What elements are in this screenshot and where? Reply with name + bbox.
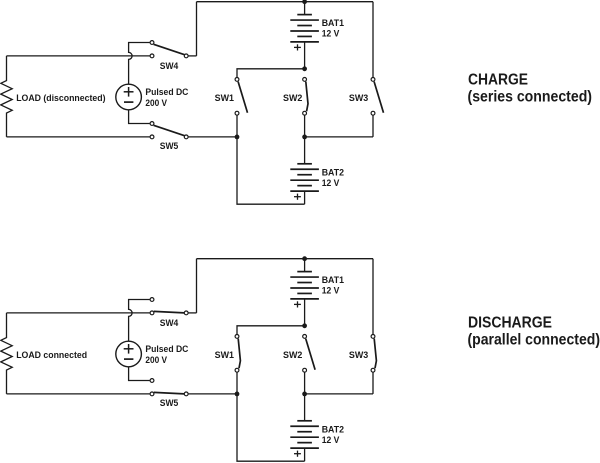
switch SW3 top contact (top) xyxy=(371,78,375,82)
switch SW2 bottom contact (top) xyxy=(303,111,307,115)
junction dot below BAT1 (top) xyxy=(302,66,307,71)
svg-text:12 V: 12 V xyxy=(322,29,340,39)
battery BAT1' (bottom) xyxy=(290,272,319,308)
wire load bottom (top) xyxy=(7,136,150,138)
label SW1 (top) xyxy=(215,93,234,103)
resistor LOAD (top) xyxy=(1,56,12,137)
switch SW1 bottom contact (top) xyxy=(235,111,239,115)
wire junction to SW1 (top) xyxy=(237,69,305,78)
wire BAT1' top lead (bottom) xyxy=(304,259,306,272)
switch SW2 blade closed (top) xyxy=(306,82,308,112)
svg-text:(series connected): (series connected) xyxy=(468,88,593,105)
svg-text:200 V: 200 V xyxy=(145,98,167,108)
switch SW5 blade upper-left to right (top) xyxy=(154,125,185,135)
label SW5' (bottom) xyxy=(160,398,179,408)
switch SW5' right contact (bottom) xyxy=(184,392,188,396)
wire source top lead with crossover hump (bottom) xyxy=(129,300,150,342)
junction dot node top rail / BAT1' (bottom) xyxy=(302,256,307,261)
wire right mid segment SW2 to SW3 (top) xyxy=(305,136,373,138)
label Pulsed DC 200 V (bottom) xyxy=(145,344,189,365)
wire SW3' bottom lead (bottom) xyxy=(372,372,374,394)
switch SW4 blade upper-left to right (top) xyxy=(154,44,185,54)
wire left rail vertical (bottom) xyxy=(196,259,198,313)
svg-text:BAT1: BAT1 xyxy=(322,18,344,28)
svg-text:200 V: 200 V xyxy=(145,355,167,365)
junction dot SW2 bottom node (top) xyxy=(302,135,307,140)
switch SW3' bottom contact (bottom) xyxy=(371,368,375,372)
wire top rail (top) xyxy=(197,1,374,3)
label DISCHARGE heading xyxy=(468,314,552,331)
switch SW1' top contact (bottom) xyxy=(235,335,239,339)
label SW1' (bottom) xyxy=(215,350,234,360)
svg-text:CHARGE: CHARGE xyxy=(468,71,528,88)
resistor LOAD' (bottom) xyxy=(1,313,12,394)
wire load top (top) xyxy=(7,55,150,57)
wire BAT2' bottom lead (bottom) xyxy=(304,448,306,461)
svg-text:BAT2: BAT2 xyxy=(322,167,344,177)
label SW5 (top) xyxy=(160,141,179,151)
svg-text:Pulsed DC: Pulsed DC xyxy=(145,87,189,97)
wire SW1' node down to bottom rail (bottom) xyxy=(237,394,305,461)
switch SW5 upper-left contact (top) xyxy=(150,122,154,126)
switch SW4' upper-left contact (bottom) xyxy=(150,298,154,302)
switch SW1' bottom contact (bottom) xyxy=(235,368,239,372)
wire junction to SW1' (bottom) xyxy=(237,326,305,335)
switch SW5' upper-left contact (bottom) xyxy=(150,379,154,383)
switch SW3 bottom contact (top) xyxy=(371,111,375,115)
switch SW1 top contact (top) xyxy=(235,78,239,82)
label BAT2' value (bottom) xyxy=(322,424,344,445)
wire source bottom lead to SW5' (bottom) xyxy=(129,367,150,381)
switch SW5' lower-left contact (bottom) xyxy=(150,392,154,396)
switch SW4 upper-left contact (top) xyxy=(150,41,154,45)
switch SW4' blade lower-left to right (bottom) xyxy=(154,311,185,313)
source V1' pulsed DC circle (bottom) xyxy=(116,341,142,367)
switch SW5 right contact (top) xyxy=(184,135,188,139)
wire left mid segment SW5' to SW1' (bottom) xyxy=(189,393,238,395)
wire SW1 bottom lead (top) xyxy=(236,115,238,137)
wire source top lead with crossover hump (top) xyxy=(129,43,150,85)
wire BAT1 top lead (top) xyxy=(304,2,306,15)
switch SW1 blade open (top) xyxy=(238,82,247,113)
svg-text:SW5: SW5 xyxy=(160,398,179,408)
switch SW2' top contact (bottom) xyxy=(303,335,307,339)
switch SW3' top contact (bottom) xyxy=(371,335,375,339)
label Pulsed DC 200 V (top) xyxy=(145,87,189,108)
svg-text:12 V: 12 V xyxy=(322,286,340,296)
svg-text:12 V: 12 V xyxy=(322,435,340,445)
label BAT1 value (top) xyxy=(322,18,344,39)
switch SW4 right contact (top) xyxy=(184,54,188,58)
label LOAD connected xyxy=(16,350,87,360)
svg-text:SW4: SW4 xyxy=(160,318,179,328)
wire BAT1' bottom lead (bottom) xyxy=(304,299,306,326)
junction dot node top rail / BAT1 (top) xyxy=(302,0,307,4)
wire right mid segment SW2' to SW3' (bottom) xyxy=(305,393,373,395)
wire SW2' bottom lead (bottom) xyxy=(304,372,306,394)
wire SW4 right contact to left rail (top) xyxy=(189,55,197,57)
svg-text:DISCHARGE: DISCHARGE xyxy=(468,314,552,331)
label BAT2 value (top) xyxy=(322,167,344,188)
svg-text:SW1: SW1 xyxy=(215,350,234,360)
label SW4' (bottom) xyxy=(160,318,179,328)
label SW2 (top) xyxy=(283,93,302,103)
wire top rail (bottom) xyxy=(197,258,374,260)
label SW2' (bottom) xyxy=(283,350,302,360)
svg-text:SW1: SW1 xyxy=(215,93,234,103)
junction dot below BAT1' (bottom) xyxy=(302,323,307,328)
switch SW2 top contact (top) xyxy=(303,78,307,82)
wire BAT1 bottom lead (top) xyxy=(304,42,306,69)
wire BAT2' top lead (bottom) xyxy=(304,394,306,421)
source V1 pulsed DC circle (top) xyxy=(116,84,142,110)
source V1' minus sign (bottom) xyxy=(124,358,133,360)
switch SW2' blade open (bottom) xyxy=(306,339,315,370)
svg-text:Pulsed DC: Pulsed DC xyxy=(145,344,189,354)
wire BAT2 top lead (top) xyxy=(304,137,306,164)
label SW4 (top) xyxy=(160,61,179,71)
source V1 minus sign (top) xyxy=(124,101,133,103)
wire right rail vertical to SW3 (top) xyxy=(372,2,374,78)
label series connected heading xyxy=(468,88,593,105)
label parallel connected heading xyxy=(468,331,600,348)
junction dot SW1' bottom node (bottom) xyxy=(235,392,240,397)
label BAT1' value (bottom) xyxy=(322,275,344,296)
wire BAT2 bottom lead (top) xyxy=(304,191,306,204)
junction dot SW2' bottom node (bottom) xyxy=(302,392,307,397)
wire load bottom (bottom) xyxy=(7,393,150,395)
source V1' plus sign (bottom) xyxy=(124,344,134,354)
svg-text:SW3: SW3 xyxy=(349,350,368,360)
svg-text:LOAD connected: LOAD connected xyxy=(16,350,87,360)
wire SW4' right contact to left rail (bottom) xyxy=(189,312,197,314)
switch SW4' lower-left contact (bottom) xyxy=(150,311,154,315)
switch SW3' blade closed (bottom) xyxy=(374,339,376,369)
svg-text:SW5: SW5 xyxy=(160,141,179,151)
source V1 plus sign (top) xyxy=(124,87,134,97)
battery BAT2 (top) xyxy=(290,164,319,200)
wire SW1 node down to bottom rail (top) xyxy=(237,137,305,204)
svg-text:BAT1: BAT1 xyxy=(322,275,344,285)
svg-text:12 V: 12 V xyxy=(322,178,340,188)
wire SW2 bottom lead (top) xyxy=(304,115,306,137)
wire SW3 bottom lead (top) xyxy=(372,115,374,137)
svg-text:SW3: SW3 xyxy=(349,93,368,103)
label LOAD (disconnected) xyxy=(16,93,105,103)
wire load top (bottom) xyxy=(7,312,150,314)
svg-text:(parallel connected): (parallel connected) xyxy=(468,331,600,348)
svg-text:BAT2: BAT2 xyxy=(322,424,344,434)
label SW3 (top) xyxy=(349,93,368,103)
wire SW1' bottom lead (bottom) xyxy=(236,372,238,394)
switch SW5 lower-left contact (top) xyxy=(150,135,154,139)
battery BAT1 (top) xyxy=(290,15,319,51)
switch SW4' right contact (bottom) xyxy=(184,311,188,315)
wire left rail vertical (top) xyxy=(196,2,198,56)
switch SW1' blade closed (bottom) xyxy=(238,339,240,369)
wire source bottom lead to SW5 (top) xyxy=(129,110,150,124)
wire left mid segment SW5 to SW1 (top) xyxy=(189,136,238,138)
switch SW5' blade lower-left to right (bottom) xyxy=(154,392,185,394)
battery BAT2' (bottom) xyxy=(290,421,319,457)
switch SW4 lower-left contact (top) xyxy=(150,54,154,58)
label SW3' (bottom) xyxy=(349,350,368,360)
wire right rail vertical to SW3' (bottom) xyxy=(372,259,374,335)
svg-text:LOAD (disconnected): LOAD (disconnected) xyxy=(16,93,105,103)
switch SW2' bottom contact (bottom) xyxy=(303,368,307,372)
svg-text:SW2: SW2 xyxy=(283,350,302,360)
label CHARGE heading xyxy=(468,71,528,88)
switch SW3 blade open (top) xyxy=(374,82,383,113)
svg-text:SW4: SW4 xyxy=(160,61,179,71)
junction dot SW1 bottom node (top) xyxy=(235,135,240,140)
svg-text:SW2: SW2 xyxy=(283,93,302,103)
